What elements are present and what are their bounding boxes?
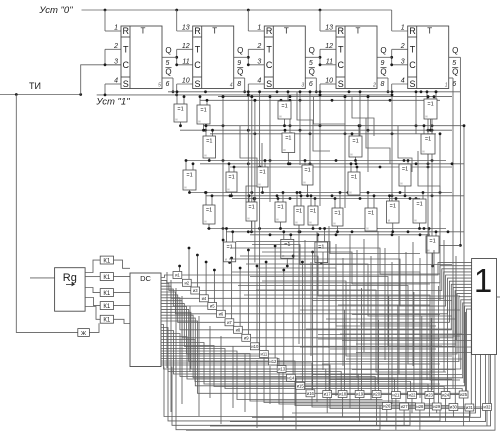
svg-text:=1: =1 [304,168,310,174]
svg-text:К1: К1 [103,304,110,310]
svg-text:и15: и15 [297,384,305,389]
svg-text:и: и [225,257,227,261]
svg-text:и14: и14 [287,376,295,381]
svg-text:и25: и25 [460,392,468,397]
svg-text:12: 12 [325,43,333,50]
svg-text:и26: и26 [383,404,391,409]
svg-text:2: 2 [400,43,405,50]
svg-text:=1: =1 [334,211,340,217]
svg-text:Rg: Rg [63,272,77,284]
svg-text:и20: и20 [373,392,381,397]
svg-text:13: 13 [325,25,333,32]
svg-text:К1: К1 [103,291,110,297]
svg-text:и: и [304,181,306,185]
svg-text:и24: и24 [442,393,450,398]
svg-text:К1: К1 [103,318,110,324]
svg-text:8: 8 [381,81,385,88]
svg-text:и9: и9 [244,336,249,341]
svg-text:3: 3 [401,58,405,65]
svg-text:и1: и1 [175,273,180,278]
svg-text:4: 4 [114,78,118,85]
svg-text:и: и [388,219,390,223]
svg-text:=1: =1 [281,104,287,110]
svg-text:=1: =1 [228,175,234,181]
svg-text:К1: К1 [103,275,110,281]
svg-text:=1: =1 [427,102,433,108]
svg-text:и2: и2 [184,281,189,286]
svg-text:T: T [266,45,272,55]
svg-text:=1: =1 [402,167,408,173]
svg-text:и: и [334,222,336,226]
svg-text:=1: =1 [226,245,232,251]
svg-text:T: T [212,27,217,36]
svg-text:C: C [409,60,416,70]
svg-text:Q: Q [237,68,243,77]
svg-text:Q: Q [309,46,315,55]
svg-text:1: 1 [114,25,118,32]
svg-text:и4: и4 [202,296,207,301]
svg-text:=1: =1 [310,209,316,215]
svg-text:и7: и7 [227,320,232,325]
svg-text:и: и [199,120,201,124]
svg-text:9: 9 [381,60,385,67]
svg-text:T: T [356,27,361,36]
svg-text:10: 10 [182,78,190,85]
svg-text:Q: Q [309,68,315,77]
svg-text:и19: и19 [356,392,364,397]
svg-text:S: S [266,79,272,89]
svg-text:1: 1 [445,83,448,89]
svg-text:C: C [266,60,273,70]
svg-text:=1: =1 [390,204,396,210]
svg-text:и: и [205,220,207,224]
svg-text:8: 8 [237,81,241,88]
svg-text:и: и [205,154,207,158]
svg-text:R: R [338,26,345,36]
svg-text:и: и [296,221,298,225]
svg-text:и: и [259,183,261,187]
svg-text:и12: и12 [269,359,277,364]
svg-text:=1: =1 [425,137,431,143]
svg-text:2: 2 [256,43,261,50]
svg-text:T: T [195,45,201,55]
svg-text:и17: и17 [324,392,332,397]
svg-text:=1: =1 [416,202,422,208]
svg-text:S: S [123,79,129,89]
svg-text:T: T [141,27,146,36]
svg-text:и21: и21 [392,393,400,398]
svg-text:T: T [123,45,129,55]
svg-text:и6: и6 [219,312,224,317]
svg-text:и8: и8 [236,328,241,333]
svg-text:и: и [351,153,353,157]
svg-text:и22: и22 [409,393,417,398]
svg-text:и: и [423,150,425,154]
svg-text:и: и [428,249,430,253]
svg-text:и: и [367,227,369,231]
svg-text:и31: и31 [466,405,474,410]
svg-text:10: 10 [325,78,333,85]
svg-text:1: 1 [401,25,405,32]
svg-text:4: 4 [257,78,261,85]
svg-text:6: 6 [452,81,456,88]
svg-text:и30: и30 [450,405,458,410]
svg-text:и: и [176,118,178,122]
svg-text:6: 6 [309,81,313,88]
svg-text:4: 4 [230,83,233,89]
svg-text:=1: =1 [177,107,183,113]
svg-text:C: C [194,60,201,70]
svg-text:R: R [266,26,273,36]
svg-text:T: T [338,45,344,55]
svg-text:13: 13 [182,25,190,32]
svg-text:и11: и11 [261,352,268,357]
svg-text:и: и [228,188,230,192]
svg-text:3: 3 [114,58,118,65]
svg-text:=1: =1 [351,175,357,181]
svg-text:=1: =1 [259,170,265,176]
svg-text:R: R [194,26,201,36]
svg-text:5: 5 [309,60,313,67]
svg-text:К1: К1 [103,258,110,264]
svg-text:4: 4 [401,78,405,85]
svg-text:=1: =1 [200,108,206,114]
svg-text:3: 3 [301,83,304,89]
svg-text:Ж: Ж [81,331,86,337]
svg-text:6: 6 [166,81,170,88]
svg-text:и: и [248,217,250,221]
svg-text:C: C [338,60,345,70]
svg-text:=1: =1 [248,205,254,211]
svg-text:S: S [338,79,344,89]
svg-text:Q: Q [452,46,458,55]
svg-text:5: 5 [158,83,161,89]
svg-text:и: и [415,219,417,223]
svg-text:и18: и18 [339,392,347,397]
svg-text:1: 1 [474,262,492,299]
svg-text:и5: и5 [210,304,215,309]
svg-text:=1: =1 [368,211,374,217]
svg-text:Q: Q [165,68,171,77]
svg-text:и32: и32 [484,405,492,410]
svg-text:и: и [185,186,187,190]
svg-text:=1: =1 [318,245,324,251]
svg-text:3: 3 [257,58,261,65]
svg-text:и27: и27 [401,404,409,409]
svg-text:и28: и28 [416,404,424,409]
svg-text:и: и [310,221,312,225]
svg-text:и: и [277,218,279,222]
svg-text:и23: и23 [426,393,434,398]
svg-text:S: S [194,79,200,89]
svg-text:=1: =1 [296,209,302,215]
svg-text:2: 2 [372,83,376,89]
svg-text:12: 12 [182,43,190,50]
svg-text:T: T [410,45,416,55]
svg-text:Q: Q [380,46,386,55]
svg-text:и3: и3 [193,288,198,293]
svg-text:и10: и10 [251,344,259,349]
svg-text:DC: DC [140,274,151,283]
svg-text:=1: =1 [186,173,192,179]
svg-text:Q: Q [380,68,386,77]
svg-text:=1: =1 [277,205,283,211]
svg-text:и: и [280,115,282,119]
svg-text:и: и [401,182,403,186]
svg-text:=1: =1 [429,239,435,245]
svg-text:5: 5 [166,60,170,67]
svg-text:ТИ: ТИ [29,81,41,91]
svg-text:R: R [409,26,416,36]
svg-text:S: S [409,79,415,89]
svg-text:T: T [284,27,289,36]
svg-text:Уст "0": Уст "0" [38,5,73,16]
svg-text:=1: =1 [206,139,212,145]
svg-text:1: 1 [257,25,261,32]
svg-text:Q: Q [165,46,171,55]
svg-text:T: T [427,27,432,36]
svg-text:R: R [123,26,130,36]
svg-text:Q: Q [237,46,243,55]
svg-text:11: 11 [326,58,333,65]
svg-text:и: и [284,148,286,152]
svg-text:Уст "1": Уст "1" [95,97,130,108]
svg-text:=1: =1 [285,136,291,142]
svg-text:Q: Q [452,68,458,77]
svg-text:5: 5 [452,60,456,67]
svg-text:2: 2 [113,43,118,50]
svg-text:и: и [426,115,428,119]
svg-text:11: 11 [182,58,189,65]
svg-text:=1: =1 [206,208,212,214]
svg-text:и16: и16 [307,391,315,396]
svg-text:C: C [123,60,130,70]
svg-text:и29: и29 [433,404,441,409]
svg-text:и13: и13 [278,367,286,372]
svg-text:=1: =1 [352,139,358,145]
svg-text:9: 9 [237,60,241,67]
svg-text:и: и [350,191,352,195]
